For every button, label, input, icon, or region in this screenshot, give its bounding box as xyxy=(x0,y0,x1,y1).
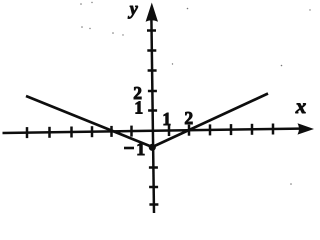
svg-text:x: x xyxy=(295,94,307,118)
svg-text:1: 1 xyxy=(136,139,145,159)
svg-text:1: 1 xyxy=(134,98,143,118)
svg-text:2: 2 xyxy=(184,108,193,128)
svg-text:y: y xyxy=(128,0,139,19)
svg-text:1: 1 xyxy=(162,109,171,129)
